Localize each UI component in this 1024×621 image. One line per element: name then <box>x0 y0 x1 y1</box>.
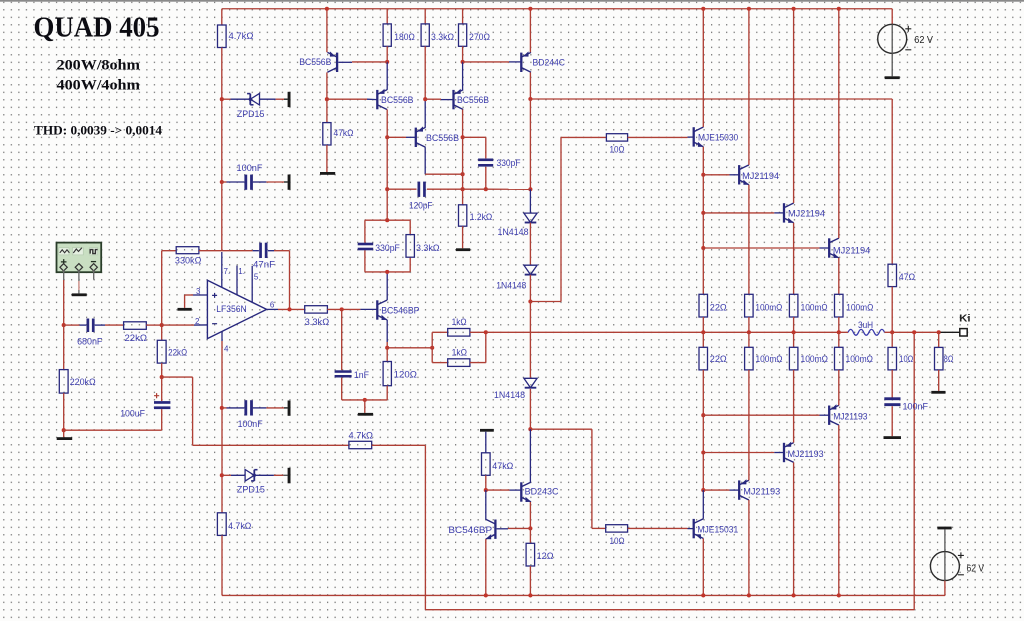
wire MJ21194-2 emitter down <box>793 223 795 294</box>
svg-text:680nF: 680nF <box>77 336 103 347</box>
wire emitter node to 120Ω <box>386 348 388 362</box>
resistor 120Ω <box>383 362 391 386</box>
resistor 4.7kΩ feedback <box>349 441 372 448</box>
wire collector column to 120pF wire <box>529 99 531 189</box>
wire bus to output terminal <box>941 331 960 333</box>
svg-text:4: 4 <box>224 345 229 354</box>
junction BD243C base node <box>484 488 488 492</box>
wire pin3 to ground <box>184 295 186 308</box>
svg-text:BC556B: BC556B <box>426 132 459 143</box>
ground signal source <box>72 293 87 296</box>
junction MJ21193-3 base tap <box>701 413 705 417</box>
svg-text:BC556B: BC556B <box>299 56 331 67</box>
junction MJ21193-1 base tap <box>701 488 705 492</box>
wire bottom junction to 10Ω lower corner <box>530 428 592 430</box>
wire source output stub <box>63 270 65 280</box>
svg-text:47kΩ: 47kΩ <box>334 127 354 138</box>
wire 120pF row <box>387 188 416 190</box>
signal generator terminals <box>60 264 67 271</box>
junction ZPD15 row <box>220 97 224 101</box>
junction BC546BP lower rail <box>484 593 488 597</box>
wire +62V top rail <box>222 8 892 10</box>
svg-text:180Ω: 180Ω <box>394 31 415 42</box>
svg-text:100nF: 100nF <box>238 418 263 429</box>
wire bus to lower emitter resistor <box>838 332 840 347</box>
signal generator + mark <box>61 259 67 265</box>
wire mid junction to 10Ω corner <box>530 301 561 303</box>
wire rail to R 4.7k top <box>221 9 223 25</box>
wire 10Ω lower to MJE15031 base <box>628 527 688 529</box>
signal generator box <box>57 243 102 273</box>
diode 1N4148 third <box>524 378 537 387</box>
junction bus return <box>912 330 916 334</box>
wire 1nF/120Ω ground row <box>342 399 388 401</box>
transistor Q BC556B third <box>416 127 426 147</box>
svg-text:330pF: 330pF <box>497 157 521 168</box>
wire diode chain mid down to diode3 <box>529 302 531 379</box>
wire MJ21194-3 base tap <box>702 213 704 248</box>
svg-text:4.7kΩ: 4.7kΩ <box>228 520 251 531</box>
wire MJE15030 collector to rail <box>702 9 704 127</box>
transistor Q BD243C <box>521 482 531 502</box>
wire BC556B4 emitter up <box>462 62 464 90</box>
wire MJ21194-2 base tap <box>702 175 704 213</box>
svg-text:Ki: Ki <box>959 312 970 324</box>
svg-text:100nF: 100nF <box>237 162 263 173</box>
wire BD244C base row <box>463 61 509 63</box>
ground 47kΩ lower <box>480 429 494 432</box>
junction ground stub <box>363 398 367 402</box>
svg-text:10Ω: 10Ω <box>899 353 913 364</box>
wire to 1kΩ lower <box>432 362 448 364</box>
wire 22Ω column <box>702 248 704 294</box>
junction rail BC556B1 <box>325 7 329 11</box>
svg-text:1N4148: 1N4148 <box>496 280 526 291</box>
svg-text:47kΩ: 47kΩ <box>492 460 513 471</box>
capacitor 47nF <box>259 243 267 258</box>
wire input node down to R220k <box>63 325 65 370</box>
ground op-amp pin3 <box>178 308 192 311</box>
junction bus 100mΩ-3 <box>837 330 841 334</box>
junction rail MJ21194-3 <box>837 7 841 11</box>
wire MJ21193-1 collector up <box>748 370 750 480</box>
wire emitter junction to 12Ω <box>529 528 531 543</box>
wire 10Ω zobel to 100nF <box>891 370 893 398</box>
wire 330kΩ to 47nF <box>199 250 253 252</box>
svg-text:120Ω: 120Ω <box>394 369 417 380</box>
junction 120pF right <box>484 187 488 191</box>
wire BD244C emitter to rail <box>529 9 531 52</box>
svg-text:MJ21194: MJ21194 <box>742 170 779 181</box>
op-amp + input mark <box>212 293 217 298</box>
wire bus to 10Ω zobel <box>891 332 893 347</box>
wire rail to 270Ω <box>462 9 464 24</box>
wire BC556B3 base row <box>387 136 406 138</box>
wire 47nF to output wrap corner <box>268 250 274 252</box>
wire box left branch <box>364 220 366 243</box>
wire 100nF zobel to ground <box>891 406 893 436</box>
wire rail to 3.3kΩ <box>424 9 426 24</box>
svg-text:8Ω: 8Ω <box>944 353 954 364</box>
wire 1kΩ upper right <box>470 331 486 333</box>
junction ZPD15 bottom row <box>220 473 224 477</box>
wire tap column down to 1.2kΩ <box>462 137 464 205</box>
resistor 330kΩ <box>176 247 199 254</box>
wire corner up to 10Ω row <box>560 137 562 301</box>
wire box bottom row <box>365 271 410 273</box>
transistor Q BD244C <box>521 52 531 72</box>
wire zener to ground top <box>260 98 276 100</box>
wire BD244C collector down <box>529 72 531 99</box>
wire output bus <box>486 331 848 333</box>
capacitor 100uF electrolytic <box>154 401 170 409</box>
svg-text:4.7kΩ: 4.7kΩ <box>229 30 254 41</box>
wire MJ21193-3 emitter down <box>838 425 840 595</box>
svg-text:100uF: 100uF <box>120 408 145 419</box>
wire ground row to 100uF <box>64 429 162 431</box>
junction diode chain mid <box>528 299 532 303</box>
svg-text:3.3kΩ: 3.3kΩ <box>305 316 330 327</box>
transistor Q MJE15030 <box>694 127 704 147</box>
junction feedback node <box>160 375 164 379</box>
wire 22Ω lower to MJE15031 column <box>702 370 704 415</box>
svg-text:47nF: 47nF <box>253 259 275 270</box>
svg-text:62 V: 62 V <box>967 564 985 575</box>
op-amp pin 5 stub <box>251 266 253 302</box>
capacitor 680nF <box>87 319 95 333</box>
junction 330pF tap <box>461 135 465 139</box>
wire MJ21193-2 emitter down <box>793 462 795 595</box>
voltage source V2 62V <box>930 552 959 581</box>
wire feedback node to 100uF <box>161 377 163 401</box>
junction BC546BP emitter node <box>385 346 389 350</box>
wire ground to 47kΩ lower <box>485 432 487 453</box>
wire MJ21193-2 base row <box>703 452 774 454</box>
wire op-amp output pin6 <box>267 308 278 310</box>
wire MJE15031 collector column <box>702 490 704 519</box>
capacitor 330pF right <box>478 159 493 167</box>
junction bus load <box>937 330 941 334</box>
transistor Q MJ21194 second <box>784 203 794 223</box>
junction bus 100mΩ-1 <box>747 330 751 334</box>
svg-text:MJ21193: MJ21193 <box>743 486 780 497</box>
resistor 10Ω upper <box>606 134 627 141</box>
svg-text:1kΩ: 1kΩ <box>452 316 467 327</box>
junction BD243C emitter <box>528 526 532 530</box>
transistor Q BC556B second <box>377 90 387 110</box>
svg-text:1.: 1. <box>238 267 245 276</box>
transistor Q BC546BP lower <box>486 519 496 539</box>
top border line <box>0 0 1024 2</box>
svg-text:330pF: 330pF <box>375 242 400 253</box>
svg-text:THD: 0,0039 -> 0,0014: THD: 0,0039 -> 0,0014 <box>34 123 162 138</box>
resistor 100mΩ lower-2 <box>789 347 798 370</box>
capacitor 100uF polarity + <box>154 393 159 398</box>
wire BD243C emitter to BC546BP lower base <box>508 527 530 529</box>
ground 1.2kΩ <box>456 248 470 251</box>
svg-text:7.: 7. <box>224 267 231 276</box>
wire bus to lower emitter resistor <box>793 332 795 347</box>
resistor 220kΩ <box>59 370 68 394</box>
capacitor 1nF <box>335 370 352 377</box>
svg-text:5: 5 <box>254 272 259 281</box>
svg-text:22kΩ: 22kΩ <box>125 332 148 343</box>
wire ZPD15 top row <box>222 98 231 100</box>
ground input network <box>63 430 65 437</box>
wire collector to 47kΩ <box>326 99 328 122</box>
ground rotated ZPD15 bottom <box>288 468 291 484</box>
wire node down to BC546BP lower collector <box>485 490 487 519</box>
wire pin3 lead <box>193 294 207 296</box>
junction inverting input node <box>160 323 164 327</box>
junction 270Ω / BC556B4 emitter <box>461 60 465 64</box>
svg-text:6: 6 <box>270 300 275 309</box>
svg-text:MJ21194: MJ21194 <box>833 245 870 256</box>
source unused terminal stub <box>93 270 95 279</box>
resistor 8Ω load <box>935 347 944 370</box>
wire second rail corner down to 47Ω <box>891 99 893 264</box>
resistor 47kΩ upper <box>323 123 331 145</box>
resistor 22kΩ vertical <box>157 340 166 363</box>
wire BC546BP lower emitter down <box>485 539 487 595</box>
svg-text:220kΩ: 220kΩ <box>70 376 96 387</box>
transistor Q MJ21194 first <box>739 165 749 185</box>
wire 47kΩ lower to base node <box>485 475 487 490</box>
junction MJ21193-2 base tap <box>701 450 705 454</box>
ground rotated 100nF bottom <box>288 401 291 416</box>
wire 10Ω to MJE15030 base <box>628 136 688 138</box>
wire input node to 680nF <box>64 324 80 326</box>
resistor 3.3kΩ top <box>421 24 429 46</box>
inductor 3uH <box>848 329 884 335</box>
svg-text:ZPD15: ZPD15 <box>237 108 265 119</box>
svg-text:62 V: 62 V <box>914 35 933 46</box>
wire MJ21194-2 base row <box>703 212 774 214</box>
svg-text:BC546BP: BC546BP <box>381 304 419 315</box>
wire feedback corner down <box>192 377 194 445</box>
diode 1N4148 first <box>524 213 537 222</box>
junction 100nF row <box>220 180 224 184</box>
wire BC556B3 collector row <box>425 173 462 175</box>
capacitor 100nF bottom (supply) <box>244 400 253 415</box>
ground 47kΩ upper <box>320 172 335 175</box>
wire base node down to 1nF <box>341 309 343 370</box>
transistor Q MJ21193 third <box>829 405 839 425</box>
wire -62V rail left riser <box>221 594 223 596</box>
svg-text:QUAD 405: QUAD 405 <box>34 12 160 44</box>
wire pin4 negative supply column <box>221 341 223 513</box>
wire wrap down to op-amp output <box>289 251 291 310</box>
svg-text:BD243C: BD243C <box>525 486 559 497</box>
wire BD244C/120pF row <box>486 188 531 190</box>
wire pin4 lead <box>221 331 223 341</box>
ground 1nF/120Ω <box>358 413 373 416</box>
junction box top <box>385 218 389 222</box>
wire bus to 8Ω load <box>938 332 940 347</box>
wire corner to 330kΩ <box>162 250 177 252</box>
wire 1kΩ pair left connector <box>431 332 433 362</box>
svg-text:BC556B: BC556B <box>381 94 414 105</box>
svg-text:1N4148: 1N4148 <box>494 389 525 400</box>
transistor Q BC556B first <box>327 52 337 72</box>
ground rotated 100nF top <box>288 175 291 190</box>
output terminal Ki square <box>960 329 967 336</box>
svg-text:3uH: 3uH <box>858 319 873 330</box>
wire BC556B1 base lead <box>338 61 352 63</box>
junction bus zobel <box>890 330 894 334</box>
wire 3.3kΩ to BC546BP base node <box>327 308 360 310</box>
junction rail BD244C <box>528 7 532 11</box>
zener diode ZPD15 top <box>247 93 259 105</box>
junction rail MJ21193-2 <box>792 593 796 597</box>
wire corner down to 10Ω lower row <box>591 429 593 528</box>
wire BC556B1 collector down <box>326 72 328 99</box>
svg-text:22Ω: 22Ω <box>710 353 727 364</box>
wire inverting column up corner <box>161 251 163 325</box>
svg-text:100mΩ: 100mΩ <box>846 302 873 313</box>
svg-text:330kΩ: 330kΩ <box>175 255 202 266</box>
wire R220k to ground row <box>63 393 65 430</box>
wire MJ21193-2 base tap <box>702 415 704 452</box>
wire source V2 to -62V rail <box>944 581 946 596</box>
wire MJE15030 emitter down <box>702 147 704 175</box>
svg-text:MJ21193: MJ21193 <box>833 410 867 421</box>
wire rail corner into source 1 <box>891 9 893 25</box>
resistor 100mΩ upper-3 <box>835 294 844 317</box>
svg-text:100mΩ: 100mΩ <box>755 302 782 313</box>
diode 1N4148 second <box>524 265 537 274</box>
svg-text:1nF: 1nF <box>354 369 369 380</box>
wire diode1 to diode2 <box>529 223 531 265</box>
svg-text:22kΩ: 22kΩ <box>168 347 187 358</box>
wire return rail up to output bus <box>913 332 915 609</box>
junction rail MJ21193-3 <box>837 593 841 597</box>
wire emitter resistor to bus <box>793 317 795 332</box>
svg-text:MJ21193: MJ21193 <box>788 448 824 459</box>
wire +62V second rail <box>530 98 892 100</box>
ground source V1 <box>885 76 900 79</box>
svg-text:100mΩ: 100mΩ <box>846 353 874 364</box>
zener diode ZPD15 bottom <box>245 470 257 482</box>
wire rail to R180 / BC556B column <box>386 9 388 24</box>
source V1 internal line <box>891 24 893 53</box>
svg-text:270Ω: 270Ω <box>469 31 490 42</box>
junction rail MJE15031 <box>701 593 705 597</box>
wire 22kΩ vertical to feedback node <box>161 363 163 377</box>
wire source middle terminal to ground <box>78 270 80 281</box>
wire MJ21194-1 collector to rail <box>748 9 750 165</box>
wire 100nF top row <box>222 181 227 183</box>
junction BC556B3 base node <box>385 135 389 139</box>
capacitor 100nF zobel <box>884 397 900 406</box>
wire diode3 down <box>529 389 531 429</box>
wire mirror base row left <box>327 98 367 100</box>
wire to diode 1 <box>529 189 531 213</box>
wire MJ21194-1 base row <box>703 174 729 176</box>
wire source V1 to ground <box>891 53 893 76</box>
resistor 12Ω <box>526 543 535 566</box>
resistor 270Ω <box>459 24 467 46</box>
wire 12Ω to -62V rail <box>529 566 531 595</box>
svg-text:LF356N: LF356N <box>216 303 247 314</box>
wire node down to 22kΩ vertical <box>161 325 163 340</box>
wire MJ21193-2 collector up <box>793 370 795 443</box>
wire feedback corner down to bottom return rail <box>424 445 426 609</box>
resistor 10Ω zobel <box>888 347 897 370</box>
resistor 10Ω lower <box>606 525 628 532</box>
resistor 100mΩ lower-3 <box>835 347 844 370</box>
svg-text:100mΩ: 100mΩ <box>801 302 828 313</box>
svg-text:1kΩ: 1kΩ <box>452 346 467 357</box>
wire 100nF bottom to ground <box>253 407 267 409</box>
wire MJ21194-3 base row <box>703 247 819 249</box>
resistor 1kΩ lower <box>448 359 470 367</box>
wire to 10Ω driver resistor <box>561 136 606 138</box>
capacitor 100nF top (supply) <box>244 175 253 190</box>
wire BD243C base row <box>486 489 510 491</box>
svg-text:MJE15031: MJE15031 <box>697 524 738 535</box>
wire BC546BP collector up <box>386 272 388 300</box>
resistor 47kΩ lower <box>482 453 491 476</box>
junction diode chain top <box>528 187 532 191</box>
wire MJ21194-3 emitter down <box>838 258 840 294</box>
transistor Q MJ21193 first <box>739 480 749 500</box>
wire 4.7kΩ feedback to corner <box>372 444 426 446</box>
wire emitter resistor to bus <box>748 317 750 332</box>
junction BC556B3 emitter / BC556B4 base <box>423 97 427 101</box>
wire BC556B2 collector to 120pF node <box>386 137 388 189</box>
junction BD244C collector / second rail <box>528 97 532 101</box>
wire diode chain junction to BD243C collector <box>529 429 531 482</box>
svg-text:4.7kΩ: 4.7kΩ <box>349 430 374 441</box>
wire ground to source V2 <box>944 529 946 551</box>
wire BC556B3 emitter up <box>424 99 426 127</box>
wire MJ21193-1 emitter down <box>748 500 750 596</box>
junction rail MJ21193-1 <box>747 593 751 597</box>
wire 120pF to right junction <box>427 188 486 190</box>
wire BC556B1 emitter to rail <box>326 9 328 52</box>
wire BC556B3 collector down <box>424 147 426 174</box>
svg-text:200W/8ohm: 200W/8ohm <box>57 58 141 74</box>
wire 680nF to 22kΩ <box>95 324 105 326</box>
transistor Q MJE15031 <box>694 519 704 539</box>
svg-text:100nF: 100nF <box>903 401 929 412</box>
wire BD243C emitter down <box>529 502 531 529</box>
wire 22kΩ to inverting node <box>146 324 161 326</box>
transistor Q MJ21194 third <box>829 238 839 258</box>
junction rail MJ21194-2 <box>792 7 796 11</box>
op-amp pin 1 stub <box>236 266 238 295</box>
wire bus to lower emitter resistor <box>702 332 704 347</box>
svg-text:47Ω: 47Ω <box>899 271 916 282</box>
wire left supply column <box>221 48 223 251</box>
wire MJ21194-1 emitter down <box>748 185 750 295</box>
svg-text:ZPD15: ZPD15 <box>237 483 265 494</box>
source V2 + mark <box>958 552 964 558</box>
junction diode chain bottom <box>528 427 532 431</box>
transistor Q BC546BP upper <box>377 300 387 320</box>
wire BC556B4 base row <box>425 98 441 100</box>
svg-text:10Ω: 10Ω <box>610 535 625 546</box>
wire MJ21193-3 collector up <box>838 370 840 405</box>
svg-text:BC556B: BC556B <box>457 94 489 105</box>
wire MJ21193-1 base row <box>703 489 729 491</box>
svg-text:MJE15030: MJE15030 <box>698 132 738 143</box>
wire ZPD15 bottom row <box>222 474 231 476</box>
junction input node <box>62 323 66 327</box>
junction 12Ω rail <box>528 593 532 597</box>
junction output/47nF wrap <box>287 307 291 311</box>
